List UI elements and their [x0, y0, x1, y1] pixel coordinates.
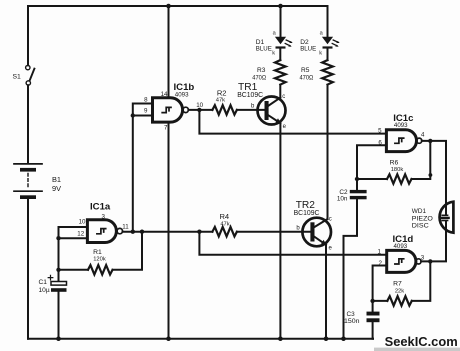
node IC1b pin9 junction — [131, 113, 135, 117]
svg-text:b: b — [251, 103, 255, 109]
svg-text:b: b — [296, 225, 300, 231]
node C2 at rail — [341, 336, 346, 341]
wire R7 left — [373, 300, 388, 302]
svg-text:B1: B1 — [52, 175, 61, 184]
wire battery to bottom rail — [27, 199, 29, 339]
node IC1a pin12 junction — [56, 236, 60, 240]
svg-text:11: 11 — [122, 224, 129, 231]
wire TR1 emitter to 0V — [279, 123, 281, 339]
svg-text:9: 9 — [144, 107, 148, 114]
transistor TR2 BC109C — [302, 218, 331, 247]
wire R4 to TR2 base — [237, 231, 312, 233]
wire IC1b pin 14 — [168, 6, 170, 97]
resistor R6 180k — [387, 174, 412, 183]
svg-text:10n: 10n — [337, 196, 348, 203]
node branch to IC1c pin5 — [197, 108, 201, 112]
wire IC1c output to piezo top — [422, 141, 446, 214]
svg-text:47k: 47k — [220, 221, 229, 227]
svg-text:R2: R2 — [217, 89, 227, 98]
svg-text:R4: R4 — [219, 212, 229, 221]
svg-text:10: 10 — [79, 218, 86, 225]
capacitor C2 10n — [350, 190, 367, 199]
LED D2 BLUE — [323, 37, 340, 48]
node R7 left junction — [370, 299, 374, 303]
svg-text:c: c — [329, 216, 332, 222]
wire R1 right to output node — [113, 232, 143, 270]
svg-text:4093: 4093 — [175, 91, 189, 98]
capacitor C3 150n — [367, 312, 380, 323]
wire IC1b pin 7 to 0V — [168, 123, 170, 339]
svg-text:BLUE: BLUE — [300, 45, 317, 52]
svg-text:e: e — [329, 246, 333, 252]
wire top rail — [28, 5, 328, 7]
resistor R3 470R — [275, 60, 286, 84]
piezo WD1 — [440, 202, 454, 233]
svg-text:e: e — [283, 124, 287, 130]
transistor TR1 BC109C — [258, 97, 286, 125]
switch S1 — [26, 65, 35, 85]
node R6 top junction — [428, 139, 432, 143]
svg-text:180k: 180k — [391, 167, 404, 173]
node R6 left junction — [355, 177, 359, 181]
wire R3 to D1 — [279, 49, 281, 60]
svg-text:c: c — [282, 94, 285, 100]
svg-text:4: 4 — [421, 132, 425, 139]
svg-text:4093: 4093 — [394, 243, 408, 250]
svg-text:k: k — [319, 51, 322, 57]
wire bottom rail — [28, 338, 373, 340]
wire R1 left — [59, 269, 89, 271]
svg-text:SeekIC.com: SeekIC.com — [385, 334, 458, 349]
wire IC1a inputs tie — [59, 227, 88, 282]
svg-text:WD1: WD1 — [412, 208, 427, 215]
resistor R5 470R — [322, 60, 333, 84]
wire IC1b inputs tie — [133, 104, 153, 232]
svg-text:22k: 22k — [395, 288, 404, 294]
svg-text:R6: R6 — [390, 160, 399, 167]
svg-text:a: a — [273, 30, 277, 36]
wire C1 to rail — [58, 292, 60, 339]
wire left supply (top segment to S1) — [27, 6, 29, 65]
svg-text:R7: R7 — [393, 280, 402, 287]
op IC1c gate 4093 — [386, 130, 421, 152]
op IC1a gate 4093 — [87, 220, 122, 243]
resistor R4 47k — [212, 227, 236, 236]
capacitor C1 10u — [48, 275, 66, 292]
svg-text:10µ: 10µ — [39, 287, 50, 294]
svg-text:5: 5 — [378, 128, 382, 135]
resistor R1 120k — [88, 265, 112, 274]
svg-text:7: 7 — [164, 125, 168, 132]
svg-text:C1: C1 — [39, 279, 48, 286]
node D1 at rail — [278, 4, 283, 9]
node IC1a out wire branches — [140, 230, 144, 234]
svg-text:47k: 47k — [216, 97, 225, 103]
svg-text:R3: R3 — [257, 67, 266, 74]
wire IC1d pin2 tie — [373, 266, 387, 312]
op IC1b gate 4093 — [153, 98, 189, 122]
wire IC1a output row to R4 to TR2 base — [123, 231, 213, 233]
wire IC1a out down to IC1d pin1 — [199, 232, 386, 255]
wire TR1 collector to R3 — [279, 85, 281, 98]
svg-text:R5: R5 — [301, 67, 310, 74]
svg-text:S1: S1 — [13, 73, 22, 80]
wire R6 right up to output — [412, 141, 431, 179]
wire R2 to TR1 base — [237, 109, 266, 111]
node IC1b pin7 at rail — [166, 336, 171, 341]
wire S1 to battery — [27, 85, 29, 163]
wire IC1b output row — [188, 109, 212, 111]
node TR2 emitter at rail — [324, 336, 329, 341]
wire IC1b out to IC1c pin5 — [199, 110, 386, 134]
svg-text:BC109C: BC109C — [294, 208, 320, 217]
svg-text:150n: 150n — [344, 318, 360, 325]
bottom gray bar — [374, 348, 460, 351]
wire R6 left — [357, 178, 387, 180]
svg-text:k: k — [272, 51, 275, 57]
svg-text:3: 3 — [102, 213, 106, 220]
svg-text:C3: C3 — [347, 311, 356, 318]
svg-text:PIEZO: PIEZO — [412, 215, 433, 222]
node IC1b inputs to IC1a output — [131, 230, 135, 234]
svg-text:120k: 120k — [93, 256, 106, 262]
wire C2 bottom to 0V — [344, 199, 358, 338]
svg-text:470Ω: 470Ω — [300, 75, 314, 82]
svg-text:IC1a: IC1a — [90, 202, 111, 213]
svg-text:a: a — [320, 30, 324, 36]
wire R7 right up to output — [412, 261, 431, 301]
node R6 corner dot — [429, 173, 433, 177]
svg-text:14: 14 — [161, 91, 168, 98]
wire R5 to TR2 collector — [327, 85, 329, 219]
svg-text:12: 12 — [77, 230, 84, 237]
node top rail to IC1b pin14 — [166, 4, 171, 9]
wire IC1c pin6 tie — [357, 145, 386, 190]
wire D2 branch from rail — [327, 6, 329, 37]
node IC1d output junction — [428, 259, 432, 263]
svg-text:DISC: DISC — [412, 223, 429, 230]
wire TR2 emitter to 0V — [325, 245, 327, 339]
op IC1d gate 4093 — [387, 250, 421, 272]
svg-text:470Ω: 470Ω — [252, 75, 266, 82]
wire C3 to rail — [372, 322, 374, 339]
resistor R7 22k — [387, 296, 412, 305]
svg-text:4093: 4093 — [394, 122, 408, 129]
svg-text:R1: R1 — [93, 249, 102, 256]
svg-text:1: 1 — [378, 248, 382, 255]
svg-text:BC109C: BC109C — [237, 90, 263, 99]
battery B1 — [14, 164, 42, 199]
svg-text:9V: 9V — [52, 184, 61, 193]
node C1 at rail — [56, 336, 61, 341]
node TR1 emitter at rail — [278, 336, 283, 341]
wire D2 to R5 — [327, 49, 329, 60]
wire D1 anode to rail — [280, 6, 282, 37]
resistor R2 47k — [212, 105, 236, 114]
LED D1 BLUE — [276, 37, 293, 48]
wire IC1d output to piezo bottom — [421, 221, 446, 261]
svg-text:BLUE: BLUE — [256, 45, 273, 52]
node R1 left junction — [56, 268, 60, 272]
